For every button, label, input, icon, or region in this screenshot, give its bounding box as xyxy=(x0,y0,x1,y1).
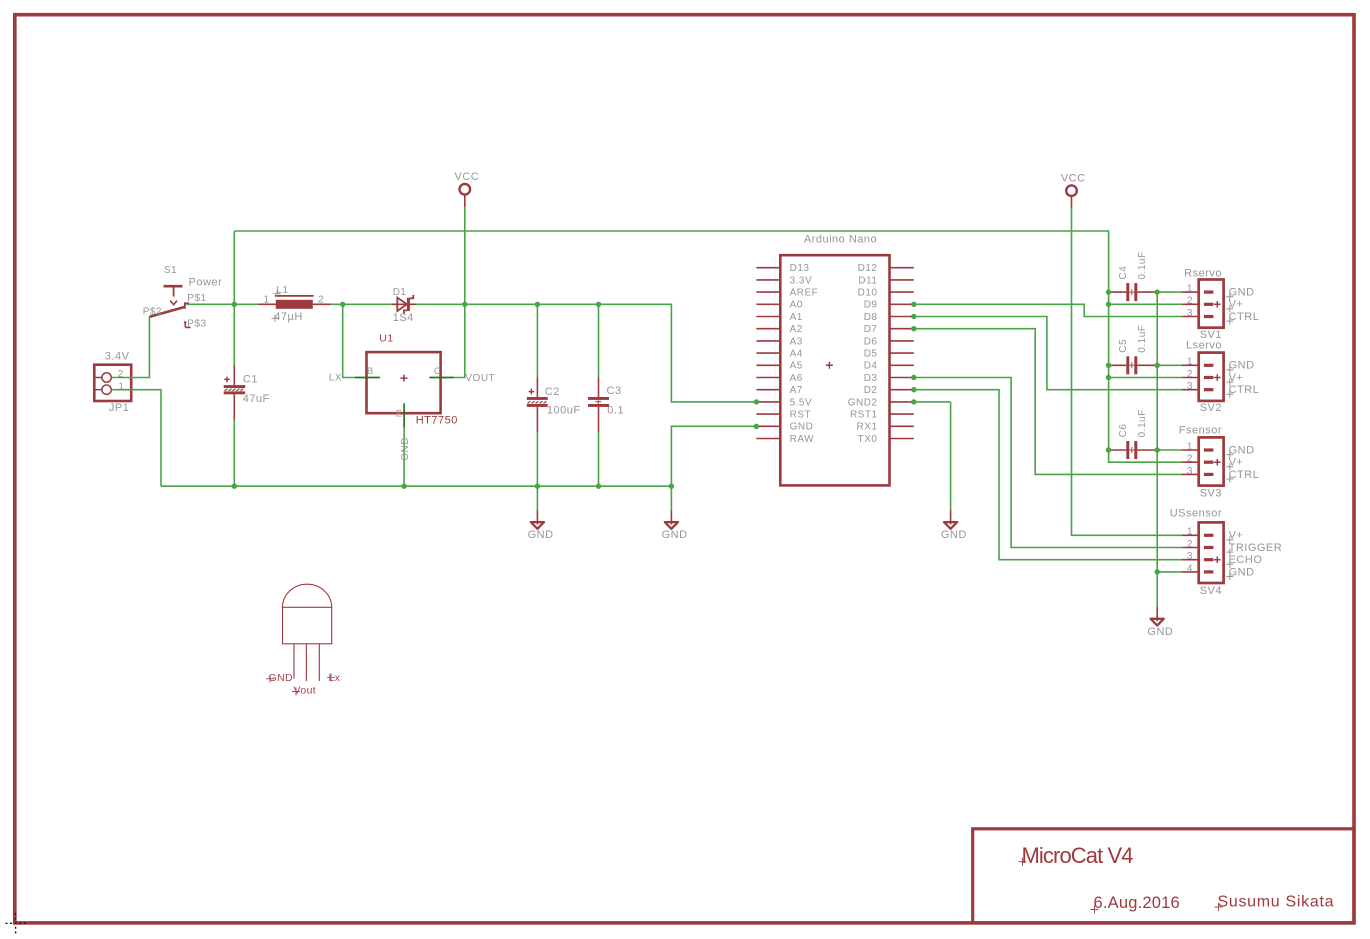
Arduino pin 3.3V (left) xyxy=(756,275,812,286)
wire junction dots xyxy=(232,289,1160,574)
svg-text:HT7750: HT7750 xyxy=(416,415,458,427)
wire main VBAT rail switch P$1 to L1 xyxy=(187,303,259,305)
connector SV2 Lservo xyxy=(1182,339,1259,414)
Arduino pin AREF (left) xyxy=(756,288,818,299)
diode D1 1S4 (schottky) xyxy=(392,287,417,324)
svg-text:ECHO: ECHO xyxy=(1229,554,1263,566)
title text MicroCat V4 xyxy=(1019,843,1134,868)
wire top VCC rail (y=231) xyxy=(234,231,1182,462)
wire GND bus vertical x=1157 xyxy=(1156,292,1158,572)
svg-text:C5: C5 xyxy=(1118,339,1129,353)
svg-text:SV2: SV2 xyxy=(1200,402,1222,414)
svg-text:3: 3 xyxy=(1187,308,1193,319)
svg-text:LX: LX xyxy=(329,373,342,384)
svg-text:RST1: RST1 xyxy=(850,410,878,421)
ground symbol under C2 rail xyxy=(528,486,554,541)
Arduino pin D9 (right) xyxy=(864,300,914,311)
wire D1 cathode junction to VCC symbol / VOUT xyxy=(454,207,465,377)
wire vertical at x=234 rail to C1 xyxy=(233,231,235,366)
svg-text:GND2: GND2 xyxy=(848,397,878,408)
svg-text:D1: D1 xyxy=(393,287,407,298)
Arduino pin D13 (left) xyxy=(756,263,809,274)
svg-text:D2: D2 xyxy=(864,385,878,396)
svg-text:C2: C2 xyxy=(545,386,560,398)
Arduino pin D3 (right) xyxy=(864,373,914,384)
svg-text:U1: U1 xyxy=(379,332,393,344)
wire JP1 pin1 to ground rail xyxy=(112,390,162,487)
wire L1 to D1 xyxy=(331,303,392,305)
svg-text:3.3V: 3.3V xyxy=(790,275,813,286)
svg-text:A0: A0 xyxy=(790,300,803,311)
svg-text:0.1uF: 0.1uF xyxy=(1137,325,1148,353)
TO-92 package outline drawing xyxy=(266,584,341,696)
svg-text:1S4: 1S4 xyxy=(393,312,414,324)
svg-text:SV3: SV3 xyxy=(1200,487,1222,499)
Arduino pin D4 (right) xyxy=(864,361,914,372)
svg-text:Power: Power xyxy=(189,276,223,288)
svg-text:3: 3 xyxy=(1187,381,1193,392)
author text Susumu Sikata xyxy=(1215,894,1335,912)
svg-text:C6: C6 xyxy=(1118,424,1129,438)
svg-text:AREF: AREF xyxy=(790,288,819,299)
Arduino pin D8 (right) xyxy=(864,312,914,323)
svg-text:1: 1 xyxy=(264,294,270,305)
connector SV4 USsensor xyxy=(1170,507,1283,597)
Arduino pin A3 (left) xyxy=(756,336,802,347)
svg-text:1: 1 xyxy=(118,381,124,392)
svg-text:Arduino Nano: Arduino Nano xyxy=(804,233,877,245)
ground rail bottom (y=486) xyxy=(161,485,671,487)
svg-text:1: 1 xyxy=(1187,527,1193,538)
Arduino pin A1 (left) xyxy=(756,312,802,323)
svg-text:47uF: 47uF xyxy=(243,393,270,405)
svg-text:0.1uF: 0.1uF xyxy=(1137,251,1148,279)
Arduino pin GND2 (right) xyxy=(848,397,914,408)
inductor L1 47uH xyxy=(258,285,331,323)
capacitor C3 0.1 xyxy=(588,378,624,432)
svg-text:100uF: 100uF xyxy=(547,404,581,416)
wire VCC right down to SV4 V+ xyxy=(1072,208,1182,536)
capacitor C2 100uF (polarized) xyxy=(527,378,581,432)
Arduino pin A0 (left) xyxy=(756,300,802,311)
svg-text:GND: GND xyxy=(400,437,411,461)
svg-text:2: 2 xyxy=(1187,369,1193,380)
wire U1 GND pin down to ground rail xyxy=(403,428,405,487)
svg-text:TX0: TX0 xyxy=(858,434,878,445)
Arduino pin RX1 (right) xyxy=(857,422,914,433)
date text 6.Aug.2016 xyxy=(1091,894,1180,914)
svg-text:GND: GND xyxy=(941,529,967,541)
svg-text:D9: D9 xyxy=(864,300,878,311)
svg-text:1: 1 xyxy=(1187,441,1193,452)
capacitor C4 0.1uF xyxy=(1109,251,1158,301)
svg-text:47µH: 47µH xyxy=(274,311,303,323)
svg-text:P$3: P$3 xyxy=(187,319,206,330)
wire GND row SV3 xyxy=(1157,449,1182,451)
wire GND row SV2 xyxy=(1157,364,1182,366)
svg-text:GND: GND xyxy=(528,529,554,541)
svg-text:P$1: P$1 xyxy=(187,293,206,304)
svg-text:TRIGGER: TRIGGER xyxy=(1229,542,1283,554)
svg-text:A3: A3 xyxy=(790,336,803,347)
switch S1 Power xyxy=(143,265,223,329)
svg-text:D4: D4 xyxy=(864,361,878,372)
svg-text:JP1: JP1 xyxy=(109,402,129,414)
svg-text:Rservo: Rservo xyxy=(1184,267,1222,279)
wire D7 to SV3 CTRL xyxy=(914,329,1182,475)
Arduino pin A5 (left) xyxy=(756,361,802,372)
Arduino pin RST (left) xyxy=(756,410,811,421)
wire V+ row SV2 xyxy=(1109,377,1182,379)
svg-text:Vout: Vout xyxy=(294,685,317,697)
wire JP1 pin2 to switch P$2 xyxy=(112,317,150,378)
svg-text:1: 1 xyxy=(1187,357,1193,368)
svg-text:3: 3 xyxy=(1187,551,1193,562)
wire Arduino GND2 pin to drop xyxy=(914,401,951,403)
svg-text:S1: S1 xyxy=(164,265,177,276)
svg-text:Fsensor: Fsensor xyxy=(1179,424,1222,436)
Arduino pin D5 (right) xyxy=(864,349,914,360)
svg-text:D3: D3 xyxy=(864,373,878,384)
wire V+ row SV1 xyxy=(1109,303,1182,305)
svg-text:A7: A7 xyxy=(790,385,803,396)
wire D1 to Arduino 5.5V pin xyxy=(416,304,756,402)
wire rail to C2 top xyxy=(536,304,538,378)
wire rail to C3 top xyxy=(598,304,600,378)
Arduino pin A4 (left) xyxy=(756,349,802,360)
capacitor C6 0.1uF xyxy=(1109,409,1158,459)
wire D9 to SV1 CTRL xyxy=(914,304,1182,316)
mcu module Arduino Nano xyxy=(780,233,889,485)
svg-text:C3: C3 xyxy=(607,385,622,397)
svg-text:A2: A2 xyxy=(790,324,803,335)
svg-text:C1: C1 xyxy=(243,374,258,386)
Arduino pin RAW (left) xyxy=(756,434,814,445)
capacitor C1 47uF (polarized) xyxy=(224,365,270,419)
wire D8 to SV2 CTRL xyxy=(914,317,1182,390)
Arduino pin D10 (right) xyxy=(858,288,914,299)
svg-text:GND: GND xyxy=(790,422,814,433)
svg-text:RX1: RX1 xyxy=(857,422,878,433)
svg-text:2: 2 xyxy=(1187,296,1193,307)
Arduino pin D11 (right) xyxy=(858,275,913,286)
VCC symbol right xyxy=(1061,172,1086,207)
svg-text:P$2: P$2 xyxy=(143,306,162,317)
svg-text:GND: GND xyxy=(1147,626,1173,638)
svg-text:3: 3 xyxy=(1187,466,1193,477)
svg-text:A6: A6 xyxy=(790,373,803,384)
origin marker cross at frame bottom-left xyxy=(6,913,27,934)
wire GND row SV4 xyxy=(1157,571,1182,573)
ground symbol for Arduino GND2 xyxy=(941,402,967,541)
wire GND row SV1 xyxy=(1157,291,1182,293)
svg-text:B: B xyxy=(367,366,374,377)
capacitor C5 0.1uF xyxy=(1109,325,1158,375)
ground symbol under SV4 xyxy=(1147,572,1173,638)
connector JP1 battery input xyxy=(94,351,131,414)
svg-text:GND: GND xyxy=(662,529,688,541)
svg-text:A4: A4 xyxy=(790,349,803,360)
svg-text:VCC: VCC xyxy=(1061,172,1086,184)
Arduino pin GND (left) xyxy=(756,422,813,433)
svg-text:A1: A1 xyxy=(790,312,803,323)
wire D3 to SV4 TRIGGER xyxy=(914,378,1182,548)
svg-text:5.5V: 5.5V xyxy=(790,397,813,408)
svg-text:VOUT: VOUT xyxy=(465,373,495,384)
svg-text:D8: D8 xyxy=(864,312,878,323)
svg-text:D10: D10 xyxy=(858,288,878,299)
Arduino pin 5.5V (left) xyxy=(756,397,812,408)
svg-text:GND: GND xyxy=(269,672,294,684)
svg-text:Susumu Sikata: Susumu Sikata xyxy=(1218,894,1335,911)
svg-text:2: 2 xyxy=(318,294,324,305)
svg-text:MicroCat V4: MicroCat V4 xyxy=(1022,843,1134,868)
svg-text:1: 1 xyxy=(1187,284,1193,295)
svg-text:3.4V: 3.4V xyxy=(105,351,130,363)
svg-text:D12: D12 xyxy=(858,263,878,274)
svg-text:USsensor: USsensor xyxy=(1170,507,1222,519)
svg-text:VCC: VCC xyxy=(455,171,480,183)
Arduino pin TX0 (right) xyxy=(858,434,914,445)
wire L1/D1 junction down to U1 LX pin xyxy=(343,304,355,377)
Arduino pin RST1 (right) xyxy=(850,410,914,421)
voltage regulator U1 HT7750 xyxy=(329,332,495,461)
svg-text:SV4: SV4 xyxy=(1200,585,1222,597)
VCC symbol left xyxy=(455,171,480,207)
svg-text:D11: D11 xyxy=(858,275,877,286)
Arduino pin A6 (left) xyxy=(756,373,802,384)
Arduino pin A2 (left) xyxy=(756,324,802,335)
svg-text:RST: RST xyxy=(790,410,812,421)
wire C1 bottom to ground rail xyxy=(233,419,235,486)
title block box xyxy=(973,829,1354,923)
ground symbol under x=671 rail xyxy=(662,486,688,541)
svg-text:2: 2 xyxy=(1187,454,1193,465)
wire Arduino GND pin to ground rail xyxy=(671,426,756,486)
svg-text:A5: A5 xyxy=(790,361,803,372)
connector SV3 Fsensor xyxy=(1179,424,1260,499)
svg-text:6.Aug.2016: 6.Aug.2016 xyxy=(1094,894,1180,912)
wire C2 bottom to ground rail xyxy=(536,431,538,486)
Arduino pin D12 (right) xyxy=(858,263,914,274)
connector SV1 Rservo xyxy=(1182,267,1259,340)
svg-text:D6: D6 xyxy=(864,336,878,347)
svg-text:2: 2 xyxy=(1187,539,1193,550)
svg-text:4: 4 xyxy=(1187,563,1193,574)
Arduino pin A7 (left) xyxy=(756,385,802,396)
Arduino pin D6 (right) xyxy=(864,336,914,347)
wire D2 to SV4 ECHO xyxy=(914,390,1182,560)
svg-text:RAW: RAW xyxy=(790,434,815,445)
svg-text:L1: L1 xyxy=(276,285,288,296)
Arduino pin D7 (right) xyxy=(864,324,914,335)
svg-text:0.1uF: 0.1uF xyxy=(1137,409,1148,437)
svg-text:D7: D7 xyxy=(864,324,878,335)
svg-text:D13: D13 xyxy=(790,263,810,274)
svg-text:Lservo: Lservo xyxy=(1186,339,1222,351)
wire C3 bottom to ground rail xyxy=(598,431,600,486)
Arduino pin D2 (right) xyxy=(864,385,914,396)
svg-text:E: E xyxy=(396,409,403,420)
svg-text:C4: C4 xyxy=(1118,266,1129,280)
svg-text:Lx: Lx xyxy=(329,672,341,684)
svg-text:C: C xyxy=(434,366,441,377)
svg-text:D5: D5 xyxy=(864,349,878,360)
svg-text:0.1: 0.1 xyxy=(607,404,624,416)
